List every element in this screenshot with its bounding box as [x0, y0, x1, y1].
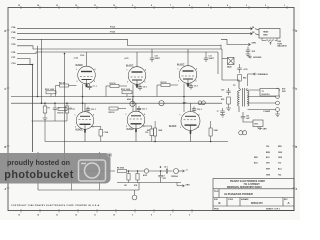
- ground cathode V4: [84, 84, 89, 87]
- svg-text:P3-A: P3-A: [110, 26, 115, 29]
- svg-text:C4 .1: C4 .1: [164, 165, 168, 168]
- heater ground box: [255, 29, 280, 39]
- svg-text:P3C: P3C: [12, 38, 16, 40]
- svg-text:A: A: [288, 201, 290, 205]
- svg-text:C15A: C15A: [104, 131, 109, 134]
- svg-text:C: C: [5, 88, 7, 91]
- svg-text:13: 13: [56, 215, 58, 217]
- svg-text:R19 1K: R19 1K: [110, 83, 117, 85]
- resistor R33 cathode: [99, 130, 103, 137]
- svg-text:7: 7: [170, 5, 171, 7]
- svg-text:R101 100K: R101 100K: [45, 89, 55, 91]
- wire under watermark vertical 2: [71, 171, 73, 190]
- svg-text:GRN: GRN: [278, 157, 283, 159]
- pilot lamp DS1: [222, 58, 234, 65]
- svg-text:8: 8: [144, 114, 145, 116]
- svg-text:6: 6: [189, 5, 190, 7]
- svg-text:1: 1: [180, 115, 181, 117]
- wire B+ rail upper: [17, 46, 222, 49]
- svg-text:R40: R40: [243, 77, 246, 80]
- test point TP1: [239, 131, 247, 135]
- svg-text:SHEET 1 OF 1: SHEET 1 OF 1: [266, 209, 281, 211]
- svg-text:7: 7: [170, 215, 171, 217]
- svg-text:R30: R30: [221, 99, 224, 101]
- svg-text:R21 1K: R21 1K: [161, 82, 168, 84]
- svg-text:1: 1: [75, 115, 76, 117]
- svg-text:8: 8: [199, 115, 200, 117]
- svg-text:6L6GC: 6L6GC: [76, 130, 84, 132]
- wire grid V8: [118, 108, 126, 110]
- capacitor C12 screen: [86, 107, 90, 113]
- capacitor C11 plate: [204, 52, 208, 62]
- svg-text:C100: C100: [80, 55, 84, 57]
- resistor R18A: [136, 171, 139, 183]
- ground cathode V5: [135, 84, 140, 87]
- svg-text:P3-B: P3-B: [110, 32, 115, 34]
- capacitor C8 screen: [138, 85, 142, 91]
- svg-text:T2: T2: [262, 91, 264, 93]
- svg-text:A7W: A7W: [143, 174, 147, 177]
- connector arrow F.B: [249, 33, 253, 35]
- svg-text:8: 8: [151, 215, 152, 217]
- svg-text:3: 3: [127, 82, 128, 84]
- svg-text:15: 15: [18, 215, 20, 217]
- wire grid V5: [106, 85, 133, 112]
- svg-text:BALANCE: BALANCE: [278, 45, 288, 48]
- svg-text:8: 8: [145, 70, 146, 72]
- svg-text:10: 10: [113, 5, 115, 7]
- capacitor C20 snubber: [226, 88, 230, 95]
- svg-text:B: B: [5, 146, 7, 149]
- svg-text:GRN: GRN: [186, 184, 191, 186]
- connector arrow bias: [177, 183, 185, 188]
- speaker jacks J2-J5: [248, 88, 280, 111]
- output tube V4 6L6GC: [78, 52, 96, 87]
- pot R32 balance: [159, 101, 164, 106]
- svg-text:1: 1: [126, 114, 127, 116]
- svg-text:3: 3: [75, 127, 76, 129]
- svg-text:B: B: [296, 146, 298, 149]
- svg-text:PROD: PROD: [214, 208, 220, 210]
- svg-text:2: 2: [265, 5, 266, 7]
- svg-text:80501470: 80501470: [251, 201, 263, 205]
- svg-text:GROUND: GROUND: [253, 57, 262, 59]
- svg-text:6L6GC: 6L6GC: [126, 66, 134, 68]
- svg-text:R17 1K: R17 1K: [59, 82, 66, 84]
- svg-text:9: 9: [132, 5, 133, 7]
- transistor CR50 inline: [144, 169, 148, 173]
- wire R27: [154, 121, 156, 142]
- svg-text:6: 6: [198, 127, 199, 129]
- svg-text:8: 8: [196, 69, 197, 71]
- output transformer T2: [222, 80, 249, 112]
- svg-text:CR5054: CR5054: [171, 175, 178, 178]
- connector arrow F.A: [249, 28, 253, 30]
- svg-text:P3B: P3B: [12, 32, 16, 34]
- connector arrow out: [181, 170, 185, 172]
- svg-text:GRN: GRN: [252, 43, 257, 45]
- svg-text:CODE: CODE: [228, 199, 234, 201]
- svg-text:photobucket: photobucket: [4, 169, 73, 181]
- capacitor C14 screen: [192, 107, 196, 113]
- svg-text:+C23: +C23: [124, 58, 128, 60]
- svg-text:GRD: GRD: [263, 35, 268, 37]
- pot R12: [174, 169, 182, 174]
- svg-text:12: 12: [75, 215, 77, 217]
- output tube V6 6L6GC: [179, 49, 197, 87]
- wire plate drop T3 right: [218, 49, 222, 80]
- svg-text:R23 1K: R23 1K: [58, 112, 65, 114]
- svg-text:1: 1: [284, 5, 285, 7]
- svg-text:6A45: 6A45: [227, 66, 232, 69]
- output tube V8 6L6GC: [127, 103, 145, 132]
- svg-text:C8 .1: C8 .1: [143, 87, 147, 89]
- svg-text:C9 .1: C9 .1: [194, 86, 198, 88]
- svg-text:P3G: P3G: [12, 63, 16, 65]
- wire stub labels left: [12, 26, 16, 65]
- svg-text:5: 5: [208, 5, 209, 7]
- resistor R103 dropper: [43, 103, 48, 120]
- svg-text:50SC014: 50SC014: [262, 93, 271, 96]
- diode rectifier CR2 box: [253, 120, 263, 127]
- frame tick marks top: [21, 6, 287, 9]
- hum balance pot R60: [262, 38, 277, 45]
- svg-text:6L6GC: 6L6GC: [76, 65, 84, 67]
- svg-text:3: 3: [126, 126, 127, 128]
- svg-text:R9 470K: R9 470K: [117, 166, 125, 169]
- svg-text:C16: C16: [145, 132, 148, 134]
- svg-text:A: A: [5, 188, 7, 191]
- wire heater line B: [17, 33, 249, 35]
- connector arrow CR2 out: [258, 127, 262, 130]
- wire P3-F: [17, 59, 33, 65]
- svg-text:GRN: GRN: [266, 175, 271, 177]
- svg-text:MERIDIAN, MISSISSIPPI 39301: MERIDIAN, MISSISSIPPI 39301: [227, 186, 262, 189]
- svg-text:B: B: [219, 201, 221, 205]
- svg-text:6: 6: [145, 82, 146, 84]
- wire plate V9 to rail: [190, 134, 192, 142]
- resistor R9 input: [118, 170, 127, 173]
- resistor R25 grid: [109, 107, 118, 110]
- ground arrow label: [249, 56, 253, 58]
- svg-text:C7 .1: C7 .1: [93, 86, 97, 88]
- svg-text:6L6GC: 6L6GC: [127, 129, 135, 131]
- wire vertical feed 37: [37, 46, 39, 97]
- svg-text:D: D: [296, 30, 298, 33]
- resistor R19 grid: [110, 85, 119, 88]
- ground snubber: [226, 104, 231, 111]
- frame zone letters sides: [5, 30, 298, 191]
- svg-text:3: 3: [246, 5, 247, 7]
- feedback arrow: [253, 73, 257, 75]
- svg-text:C14 .1: C14 .1: [197, 108, 202, 111]
- output tube V7 6L6GC: [76, 103, 94, 133]
- wire plate V8 to rail: [135, 132, 137, 141]
- resistor R21 grid: [161, 84, 170, 87]
- capacitor C21 bias: [241, 112, 253, 122]
- svg-text:6L6GC: 6L6GC: [177, 65, 185, 67]
- svg-text:+C18: +C18: [243, 69, 247, 71]
- wire plate V7 to rail: [84, 133, 86, 142]
- capacitor C9 screen: [189, 84, 193, 90]
- wire vertical input bus: [64, 54, 66, 172]
- svg-text:C: C: [296, 88, 298, 91]
- svg-text:14: 14: [37, 214, 39, 217]
- svg-text:6: 6: [144, 126, 145, 128]
- wire screen rail lower: [11, 102, 222, 104]
- svg-text:3: 3: [180, 127, 181, 129]
- photobucket watermark: [0, 153, 112, 184]
- wire feedback to transformer: [248, 74, 254, 86]
- resistor R34 cathode: [150, 129, 154, 136]
- wire bias bottom: [117, 182, 181, 184]
- svg-text:R1: R1: [48, 108, 50, 110]
- svg-text:+C22: +C22: [74, 58, 78, 60]
- svg-text:13: 13: [56, 5, 58, 7]
- svg-text:8: 8: [93, 115, 94, 117]
- capacitor C19 filter: [220, 108, 225, 117]
- svg-text:C10: C10: [155, 56, 158, 58]
- svg-text:D: D: [5, 30, 7, 33]
- svg-text:+C24: +C24: [182, 102, 186, 105]
- svg-text:11: 11: [94, 5, 96, 7]
- svg-text:3: 3: [77, 81, 78, 83]
- svg-text:R102 100K: R102 100K: [121, 89, 131, 91]
- capacitor C105 dropper: [53, 103, 57, 121]
- wire grid V7: [67, 108, 75, 110]
- capacitor C6 vertical: [158, 171, 162, 183]
- frame zone numbers top: [18, 4, 285, 7]
- svg-text:A: A: [296, 188, 298, 191]
- test point TP2: [198, 101, 205, 105]
- resistor R17A: [127, 171, 130, 183]
- jack J1 input: [38, 183, 139, 200]
- svg-text:BRN: BRN: [266, 152, 271, 154]
- part number box T2: [260, 89, 279, 97]
- wire vertical feed 41: [41, 39, 43, 103]
- svg-text:1: 1: [127, 70, 128, 72]
- svg-text:C13 .1: C13 .1: [142, 109, 147, 111]
- pot R31 balance: [130, 99, 135, 107]
- svg-text:R25 1K: R25 1K: [109, 112, 116, 114]
- capacitor C18 plate snub: [237, 64, 241, 81]
- wire cluster bottom tie: [32, 120, 67, 122]
- resistor R23 grid: [58, 108, 67, 111]
- svg-text:NUMBER: NUMBER: [241, 199, 249, 201]
- frame tick marks bottom: [21, 209, 192, 213]
- wire under watermark vertical: [99, 152, 101, 190]
- svg-text:8: 8: [95, 69, 96, 71]
- svg-text:FEEDBACK: FEEDBACK: [258, 73, 269, 76]
- svg-text:10: 10: [113, 215, 115, 217]
- resistor R30 snubber: [227, 97, 231, 104]
- svg-text:100K: 100K: [158, 130, 163, 132]
- svg-text:6: 6: [94, 81, 95, 83]
- wire color legend table: [254, 146, 283, 177]
- svg-text:6: 6: [93, 127, 94, 129]
- wire screen rail upper: [11, 96, 222, 98]
- svg-text:ALPHABASS POWER: ALPHABASS POWER: [224, 192, 253, 196]
- resistor R102 rail inline: [122, 91, 132, 94]
- svg-text:R27: R27: [147, 130, 150, 132]
- svg-text:12: 12: [75, 5, 77, 7]
- svg-text:15: 15: [18, 5, 20, 7]
- svg-text:6L6GC: 6L6GC: [169, 126, 177, 128]
- junction dots chain: [128, 170, 161, 171]
- wire bias rail: [45, 141, 228, 143]
- svg-text:COPYRIGHT 1986 PEAVEY ELECTRON: COPYRIGHT 1986 PEAVEY ELECTRONICS CORP. …: [11, 204, 100, 207]
- svg-text:GRN: GRN: [263, 128, 268, 130]
- svg-text:4005: 4005: [127, 98, 131, 101]
- wire input chain: [65, 170, 116, 172]
- title block: [213, 179, 294, 211]
- capacitor C13 screen: [137, 106, 141, 112]
- wire grid V4: [56, 84, 83, 112]
- svg-text:9: 9: [132, 215, 133, 217]
- wire R28: [210, 121, 212, 142]
- svg-text:100K: 100K: [214, 130, 219, 132]
- wire B+ rail lower: [17, 52, 218, 54]
- resistor R17 grid: [60, 84, 69, 87]
- svg-text:C20: C20: [221, 90, 224, 92]
- svg-text:6: 6: [189, 215, 190, 217]
- capacitor C4: [163, 169, 173, 174]
- svg-text:proudly hosted on: proudly hosted on: [7, 158, 70, 167]
- svg-text:100PF: 100PF: [155, 58, 161, 60]
- svg-text:HEAT: HEAT: [263, 30, 269, 33]
- capacitor C30 heater bypass: [246, 47, 251, 57]
- svg-text:P3D: P3D: [12, 44, 16, 46]
- wire dropper to bias rail: [44, 121, 46, 142]
- svg-text:R: R: [109, 153, 111, 157]
- resistor R28 PI plate: [209, 128, 212, 136]
- resistor R104 dropper: [65, 103, 69, 121]
- wire chain: [127, 170, 164, 172]
- svg-text:6: 6: [196, 81, 197, 83]
- svg-text:.047: .047: [246, 117, 250, 120]
- svg-text:C11: C11: [209, 56, 212, 58]
- svg-text:1: 1: [76, 69, 77, 71]
- svg-text:3: 3: [178, 81, 179, 83]
- svg-text:C12 .1: C12 .1: [91, 109, 96, 111]
- output tube V5 6L6GC: [128, 52, 146, 88]
- drawing border frame: [8, 8, 294, 211]
- wire heater line A: [17, 28, 249, 30]
- connector arrow GRN: [247, 43, 251, 45]
- svg-text:8: 8: [151, 5, 152, 7]
- wire P3-G main bus vertical: [17, 65, 33, 153]
- resistor R101 rail inline: [46, 91, 56, 94]
- svg-text:100PF: 100PF: [209, 58, 215, 60]
- capacitor C7 screen: [87, 84, 91, 90]
- capacitor C10 plate: [150, 49, 154, 62]
- svg-text:ORN: ORN: [278, 152, 283, 154]
- svg-text:CR2: CR2: [254, 124, 258, 126]
- wire grid V6: [157, 84, 184, 113]
- wire P3-C: [17, 39, 247, 49]
- svg-text:11: 11: [94, 215, 96, 217]
- ground speaker jack: [275, 111, 280, 116]
- svg-text:P3E: P3E: [12, 52, 16, 54]
- ground cathode V6: [186, 83, 191, 86]
- svg-text:1: 1: [178, 69, 179, 71]
- resistor R27 PI plate: [154, 128, 157, 136]
- svg-text:P.LAMP: P.LAMP: [264, 110, 271, 113]
- output tube V9 6L6GC: [181, 103, 200, 134]
- svg-text:P3A: P3A: [12, 26, 16, 29]
